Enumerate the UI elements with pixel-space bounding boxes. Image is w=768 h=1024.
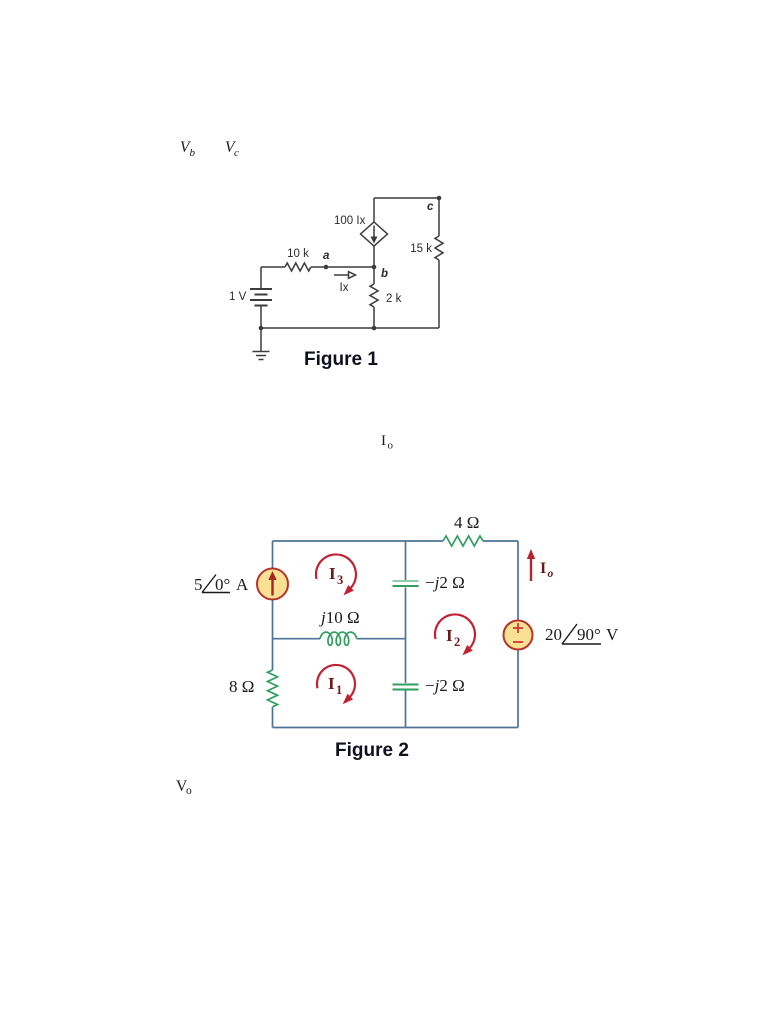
svg-text:I: I [381, 433, 386, 449]
svg-text:−j2 Ω: −j2 Ω [425, 676, 465, 695]
svg-text:20: 20 [545, 625, 562, 644]
svg-text:o: o [388, 440, 394, 452]
svg-text:100 Ix: 100 Ix [334, 215, 366, 227]
svg-text:o: o [548, 568, 554, 580]
svg-text:c: c [234, 147, 239, 159]
svg-text:V: V [606, 625, 619, 644]
svg-text:1: 1 [336, 683, 342, 697]
svg-text:8 Ω: 8 Ω [229, 677, 254, 696]
svg-text:−j2 Ω: −j2 Ω [425, 573, 465, 592]
svg-text:4 Ω: 4 Ω [454, 513, 479, 532]
svg-text:0°: 0° [215, 575, 230, 594]
svg-text:2 k: 2 k [386, 293, 402, 305]
svg-text:o: o [186, 785, 192, 797]
svg-text:I: I [446, 626, 453, 645]
svg-text:10 k: 10 k [287, 248, 309, 260]
svg-text:3: 3 [337, 573, 343, 587]
svg-text:Ix: Ix [340, 282, 349, 294]
svg-text:1 V: 1 V [229, 291, 247, 303]
svg-text:A: A [236, 575, 249, 594]
svg-text:I: I [540, 560, 546, 577]
svg-text:b: b [381, 268, 388, 280]
svg-text:a: a [323, 250, 330, 262]
svg-text:c: c [427, 201, 434, 213]
svg-text:I: I [329, 564, 336, 583]
svg-text:j10 Ω: j10 Ω [319, 608, 360, 627]
svg-text:90°: 90° [577, 625, 601, 644]
svg-text:I: I [328, 674, 335, 693]
svg-text:15 k: 15 k [410, 243, 432, 255]
svg-text:5: 5 [194, 575, 203, 594]
svg-text:Figure 1: Figure 1 [304, 349, 378, 370]
svg-text:b: b [190, 147, 196, 159]
svg-text:Figure 2: Figure 2 [335, 740, 409, 761]
svg-text:2: 2 [454, 635, 460, 649]
